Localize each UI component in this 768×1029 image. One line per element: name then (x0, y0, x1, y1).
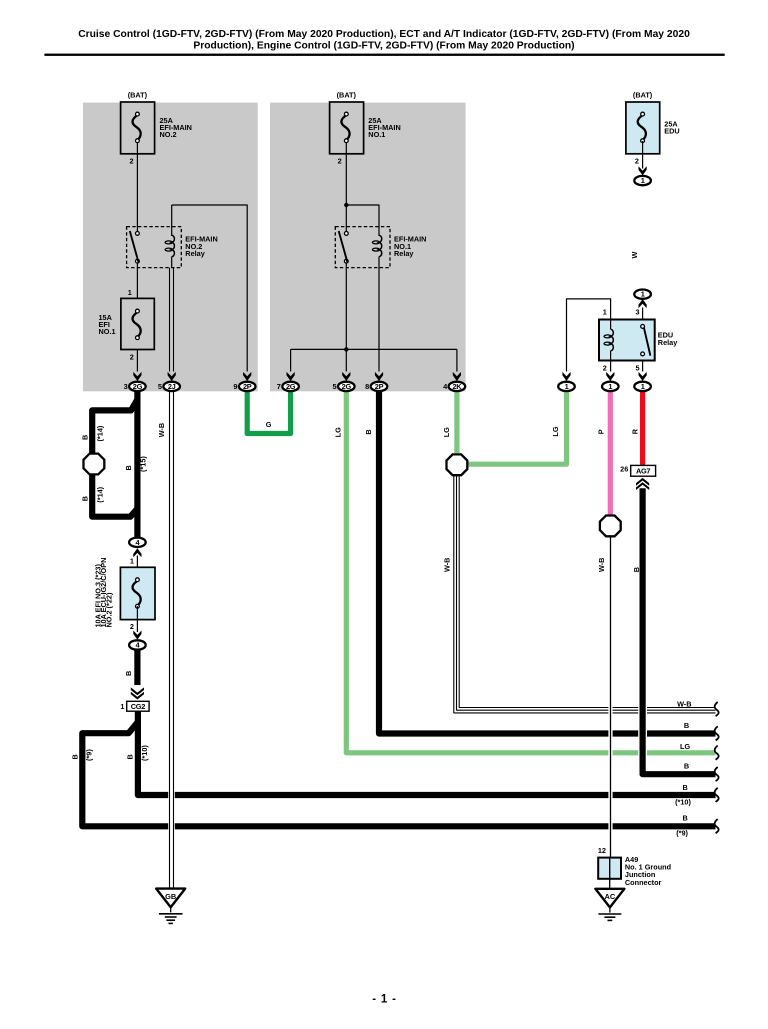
svg-text:B: B (80, 435, 89, 440)
svg-text:Connector: Connector (625, 878, 662, 887)
svg-text:W: W (630, 252, 639, 259)
svg-text:2: 2 (130, 157, 134, 166)
svg-text:1: 1 (641, 382, 645, 391)
svg-text:LG: LG (442, 427, 451, 437)
svg-text:W-B: W-B (443, 558, 452, 572)
svg-text:(*14): (*14) (96, 486, 105, 502)
svg-text:Production), Engine Control (1: Production), Engine Control (1GD-FTV, 2G… (193, 40, 574, 51)
svg-text:7: 7 (277, 382, 281, 391)
svg-text:GB: GB (165, 892, 176, 901)
svg-text:2: 2 (603, 363, 607, 372)
svg-text:W-B: W-B (677, 699, 691, 708)
svg-text:1: 1 (128, 288, 132, 297)
svg-text:(*10): (*10) (675, 797, 691, 806)
svg-text:LG: LG (680, 742, 690, 751)
svg-text:B: B (124, 671, 133, 676)
svg-text:G: G (266, 420, 272, 429)
svg-text:B: B (682, 814, 687, 823)
svg-text:(*10): (*10) (140, 745, 149, 761)
svg-text:Relay: Relay (394, 249, 414, 258)
svg-text:(BAT): (BAT) (128, 90, 148, 99)
svg-text:B: B (124, 465, 133, 470)
svg-text:W-B: W-B (597, 558, 606, 572)
svg-text:2K: 2K (452, 382, 462, 391)
svg-text:2P: 2P (375, 382, 384, 391)
svg-text:1: 1 (641, 290, 645, 299)
svg-text:5: 5 (636, 363, 640, 372)
svg-text:(*9): (*9) (85, 749, 94, 761)
svg-text:Cruise Control (1GD-FTV, 2GD-F: Cruise Control (1GD-FTV, 2GD-FTV) (From … (78, 29, 690, 40)
svg-text:1: 1 (120, 702, 124, 711)
svg-text:Relay: Relay (658, 338, 678, 347)
svg-text:(*9): (*9) (676, 829, 688, 838)
svg-text:2G: 2G (342, 382, 352, 391)
svg-text:26: 26 (620, 464, 628, 473)
svg-text:B: B (684, 762, 689, 771)
svg-text:3: 3 (636, 307, 640, 316)
svg-text:NO.1: NO.1 (368, 130, 385, 139)
svg-text:B: B (71, 754, 80, 759)
svg-text:B: B (80, 496, 89, 501)
svg-text:1: 1 (641, 176, 645, 185)
svg-text:8: 8 (365, 382, 369, 391)
svg-text:(BAT): (BAT) (337, 90, 357, 99)
svg-text:1: 1 (565, 382, 569, 391)
svg-text:AG7: AG7 (636, 467, 650, 476)
svg-text:B: B (682, 783, 687, 792)
svg-text:CG2: CG2 (131, 702, 145, 711)
svg-text:12: 12 (598, 846, 606, 855)
svg-text:2J: 2J (168, 382, 176, 391)
svg-text:3: 3 (124, 382, 128, 391)
svg-text:(*15): (*15) (138, 456, 147, 472)
svg-text:B: B (125, 754, 134, 759)
svg-text:NO.2 (*22): NO.2 (*22) (105, 592, 114, 627)
svg-text:2: 2 (338, 157, 342, 166)
svg-text:2G: 2G (286, 382, 296, 391)
svg-text:B: B (684, 721, 689, 730)
svg-text:(BAT): (BAT) (633, 90, 653, 99)
svg-text:1: 1 (608, 382, 612, 391)
svg-text:B: B (364, 429, 373, 434)
svg-text:5: 5 (332, 382, 336, 391)
svg-text:2G: 2G (133, 382, 143, 391)
svg-text:NO.2: NO.2 (160, 130, 177, 139)
svg-text:2: 2 (130, 622, 134, 631)
svg-text:2: 2 (635, 157, 639, 166)
svg-text:5: 5 (158, 382, 162, 391)
svg-text:W-B: W-B (157, 423, 166, 437)
svg-text:R: R (631, 428, 640, 434)
svg-text:NO.1: NO.1 (99, 327, 116, 336)
svg-text:- 1 -: - 1 - (372, 994, 396, 1006)
svg-text:2: 2 (130, 352, 134, 361)
svg-text:(*14): (*14) (96, 425, 105, 441)
svg-text:B: B (632, 567, 641, 572)
svg-text:2P: 2P (243, 382, 252, 391)
svg-text:LG: LG (551, 426, 560, 436)
svg-text:1: 1 (130, 557, 134, 566)
svg-text:LG: LG (334, 427, 343, 437)
svg-text:P: P (597, 429, 606, 434)
svg-text:1: 1 (603, 307, 607, 316)
svg-text:Relay: Relay (185, 249, 205, 258)
svg-text:9: 9 (233, 382, 237, 391)
svg-text:AC: AC (605, 892, 616, 901)
svg-text:EDU: EDU (664, 126, 679, 135)
